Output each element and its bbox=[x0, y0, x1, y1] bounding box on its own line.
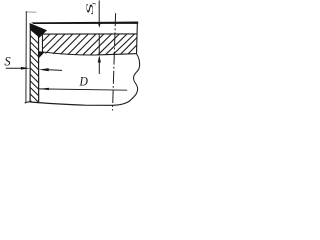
tube wall hatching bbox=[30, 36, 38, 103]
plate left edge bbox=[41, 34, 43, 52]
dimension S1 upper line bbox=[98, 1, 100, 24]
dimension S left tail bbox=[6, 67, 22, 69]
svg-text:1: 1 bbox=[92, 2, 96, 6]
cladding bar (thin blackened sheet) bbox=[31, 22, 138, 25]
inner tube wall line bbox=[25, 11, 27, 102]
dimension S1 label (rotated) bbox=[84, 3, 95, 15]
plate hatching bbox=[43, 34, 137, 55]
bottom shell line with tube end bbox=[25, 92, 137, 105]
dimension D line bbox=[39, 89, 127, 90]
dimension S left arrowhead bbox=[21, 67, 30, 70]
dimension S1 subscript 1 (rotated) bbox=[92, 2, 96, 6]
svg-text:S: S bbox=[4, 54, 11, 68]
dimension S1 upper arrowhead (down) bbox=[98, 23, 101, 28]
plate bottom line bbox=[42, 52, 136, 55]
break line (wavy right edge) bbox=[134, 54, 140, 92]
dimension S1 line crossing plate bbox=[98, 34, 100, 55]
tube wall left line bbox=[29, 24, 31, 102]
plate right edge bbox=[136, 22, 139, 54]
dimension S right arrowhead bbox=[39, 68, 49, 71]
svg-text:D: D bbox=[79, 74, 89, 89]
dimension D label bbox=[79, 74, 89, 89]
centerline (dash-dot axis) bbox=[113, 13, 116, 110]
dimension S1 lower arrowhead (up) bbox=[98, 55, 101, 62]
dimension S1 lower tail bbox=[98, 60, 100, 74]
weld fillet bottom (inside corner) bbox=[39, 51, 45, 58]
plate top line bbox=[42, 33, 137, 35]
tube wall right line bbox=[38, 34, 40, 103]
weld bead top (filled wedge) bbox=[30, 23, 47, 38]
dimension D arrowhead (left) bbox=[39, 88, 49, 90]
dimension S right tail bbox=[48, 69, 62, 72]
faint corner line top-left bbox=[26, 11, 37, 13]
